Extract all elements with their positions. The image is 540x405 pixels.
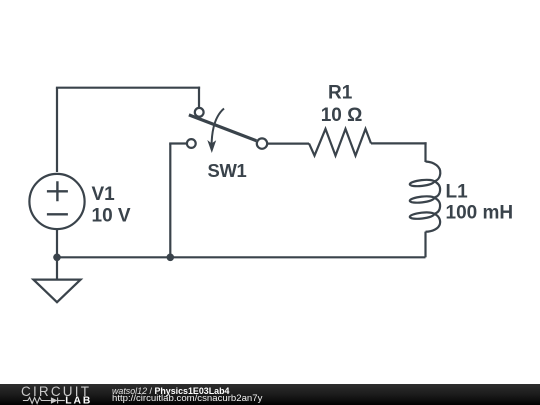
voltage source V1 xyxy=(29,174,84,229)
svg-text:V1: V1 xyxy=(92,184,116,205)
svg-text:SW1: SW1 xyxy=(208,160,247,181)
ground stub wire xyxy=(56,257,58,279)
node junction dot B xyxy=(167,253,175,261)
wire left vertical xyxy=(56,88,58,172)
svg-text:100 mH: 100 mH xyxy=(446,203,514,224)
ground xyxy=(33,257,80,302)
svg-text:10 V: 10 V xyxy=(92,206,131,227)
V1 minus mark xyxy=(47,213,68,215)
L1 coil bump 1 xyxy=(426,162,441,182)
ground triangle xyxy=(33,280,80,303)
resistor R1 xyxy=(309,129,371,156)
SW1 terminal circle right xyxy=(257,138,267,148)
SW1 arrowhead xyxy=(207,140,216,153)
wire inductor bottom xyxy=(424,232,426,258)
wire switch to resistor xyxy=(267,143,309,145)
SW1 blade xyxy=(189,115,257,141)
svg-text:L1: L1 xyxy=(446,181,469,202)
SW1 actuation arrow arc xyxy=(212,109,224,148)
wire switch drop xyxy=(198,87,200,108)
wire bottom rail xyxy=(57,256,426,258)
switch SW1 xyxy=(187,108,267,153)
CircuitLab logo xyxy=(0,384,100,405)
inductor L1 xyxy=(409,162,440,232)
wire switch branch vertical xyxy=(169,144,171,258)
SW1 terminal circle top (pivot) xyxy=(195,108,204,117)
V1 circle body xyxy=(29,174,84,229)
wire resistor to corner xyxy=(371,142,427,144)
svg-text:LAB: LAB xyxy=(65,396,92,405)
node junction dot A xyxy=(53,253,61,261)
svg-text:R1: R1 xyxy=(328,83,353,104)
svg-text:10 Ω: 10 Ω xyxy=(321,105,363,126)
wire top rail xyxy=(56,87,200,89)
footer bar xyxy=(0,384,540,405)
wire V1 bottom xyxy=(56,229,58,257)
V1 plus mark xyxy=(47,181,68,201)
wire inductor top xyxy=(424,142,426,162)
SW1 terminal circle bottom-left xyxy=(187,139,196,148)
wire switch branch stub xyxy=(169,142,186,144)
credit text xyxy=(112,384,262,404)
label SW1 xyxy=(208,160,247,181)
